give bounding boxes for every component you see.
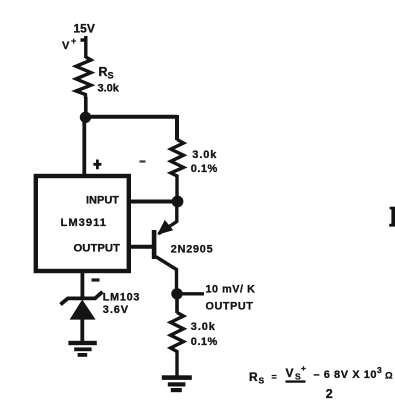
value 3.0k (RS) (98, 83, 120, 95)
svg-text:3.6V: 3.6V (103, 304, 129, 316)
wire RS to node A (84, 97, 88, 117)
svg-text:+: + (301, 363, 306, 373)
formula RS = (VS+ - 6.8V x 10^3)/2 (249, 363, 393, 400)
label minus pin (92, 278, 100, 281)
wire node A to right corner (86, 115, 178, 140)
wire zener to ground GND1 (80, 319, 84, 341)
svg-text:3.0k: 3.0k (98, 83, 120, 95)
svg-text:=: = (272, 372, 277, 382)
part name LM3911 (61, 217, 107, 229)
value 3.6V (103, 304, 129, 316)
tolerance 0.1% (R3) (191, 336, 218, 348)
stray scan mark (140, 160, 146, 162)
label OUTPUT tap (206, 300, 254, 312)
wire OUTPUT pin to base (129, 245, 153, 249)
ground GND1 bars (68, 341, 96, 357)
value 3.0k (R3) (191, 321, 216, 333)
wire node C to output tap (181, 292, 204, 295)
pin label INPUT (86, 194, 119, 206)
svg-text:10 mV/ K: 10 mV/ K (206, 284, 256, 296)
label + (plus pin) (93, 160, 101, 170)
IC U1 LM3911 box (36, 176, 129, 271)
svg-text:LM3911: LM3911 (61, 217, 107, 229)
transistor Q1 emitter wire (159, 205, 177, 234)
wire 15V to resistor RS (81, 36, 87, 58)
svg-text:V: V (62, 40, 70, 52)
transistor Q1 base bar (152, 230, 157, 259)
svg-text:OUTPUT: OUTPUT (74, 243, 121, 255)
svg-text:OUTPUT: OUTPUT (206, 300, 254, 312)
resistor R3 3.0k 0.1% (171, 313, 184, 378)
svg-text:2N2905: 2N2905 (171, 243, 214, 255)
svg-text:0.1%: 0.1% (191, 163, 218, 175)
node C junction (171, 288, 182, 299)
zener D1 cathode bar with hooks (61, 292, 103, 305)
label 10 mV/K (206, 284, 256, 296)
node A junction (80, 112, 91, 123)
resistor R2 3.0k 0.1% (171, 140, 184, 198)
transistor Q1 emitter arrowhead (157, 220, 173, 235)
svg-text:2: 2 (326, 387, 333, 400)
svg-text:3: 3 (377, 365, 382, 375)
value 3.0k (R2) (192, 149, 217, 161)
label V+ (62, 36, 76, 52)
label 2N2905 (171, 243, 214, 255)
svg-text:Ω: Ω (385, 371, 393, 382)
svg-text:15V: 15V (74, 22, 95, 36)
svg-text:V: V (286, 366, 294, 380)
svg-text:S: S (108, 71, 114, 81)
svg-text:– 6 8V X 10: – 6 8V X 10 (314, 369, 378, 381)
zener D1 anode triangle (70, 300, 96, 320)
wire node A down to LM3911 plus pin (82, 117, 86, 176)
label 15V supply (74, 22, 95, 36)
tolerance 0.1% (R2) (191, 163, 218, 175)
label RS (99, 65, 114, 81)
svg-text:S: S (295, 372, 301, 382)
wire LM3911 minus pin to zener (81, 271, 85, 299)
svg-text:0.1%: 0.1% (191, 336, 218, 348)
svg-text:R: R (249, 370, 258, 384)
figure edge mark at right border (389, 207, 395, 227)
wire INPUT pin to node B (129, 200, 175, 204)
svg-text:INPUT: INPUT (86, 194, 119, 206)
svg-text:+: + (71, 36, 76, 46)
fraction bar under VS (286, 380, 306, 382)
wire node C to resistor R3 (175, 294, 179, 313)
pin label OUTPUT (74, 243, 121, 255)
transistor Q1 collector wire (156, 257, 177, 293)
label LM103 (103, 291, 140, 303)
svg-text:S: S (259, 376, 265, 386)
svg-text:R: R (99, 65, 108, 79)
svg-text:3.0k: 3.0k (192, 149, 217, 161)
ground GND2 bars (162, 375, 192, 392)
svg-text:LM103: LM103 (103, 291, 140, 303)
node B junction (172, 196, 184, 208)
svg-text:3.0k: 3.0k (191, 321, 216, 333)
resistor R1 RS (76, 57, 91, 98)
